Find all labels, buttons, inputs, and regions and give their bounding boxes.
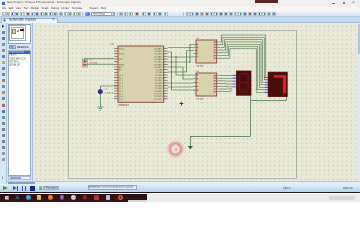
svg-text:P0.2/AD2: P0.2/AD2 [155,53,163,56]
svg-text:P2.2/A10: P2.2/A10 [155,74,163,77]
svg-text:AT89C51: AT89C51 [118,103,129,107]
svg-text:P3.1: P3.1 [119,99,123,101]
svg-text:U1: U1 [111,42,115,46]
svg-text:P0.4/AD4: P0.4/AD4 [155,58,163,61]
svg-text:XTAL1: XTAL1 [119,47,125,50]
svg-text:P3.1/TXD: P3.1/TXD [154,93,163,95]
svg-text:74LS47: 74LS47 [196,99,204,101]
svg-text:P2.6/A14: P2.6/A14 [155,85,163,88]
svg-text:P2.0/A8: P2.0/A8 [156,69,163,72]
svg-text:P2.4/A12: P2.4/A12 [155,79,163,82]
svg-text:P3.0: P3.0 [119,96,123,98]
svg-text:P0.7/AD7: P0.7/AD7 [155,66,163,69]
svg-text:LED-BLUE: LED-BLUE [105,93,115,95]
svg-text:P0.0/AD0: P0.0/AD0 [155,47,163,50]
svg-text:P1.7: P1.7 [119,93,123,95]
svg-text:P0.1/AD1: P0.1/AD1 [155,50,163,53]
svg-text:C3: C3 [105,89,107,91]
svg-text:P0.3/AD3: P0.3/AD3 [155,55,163,58]
svg-text:P2.1/A9: P2.1/A9 [156,71,163,74]
svg-text:P3.3/INT1: P3.3/INT1 [154,99,163,101]
svg-text:P2.5/A13: P2.5/A13 [155,82,163,85]
svg-text:P2.3/A11: P2.3/A11 [155,77,163,80]
svg-text:P2.7/A15: P2.7/A15 [155,87,163,90]
svg-text:X1: X1 [90,60,93,62]
svg-text:P0.6/AD6: P0.6/AD6 [155,63,163,66]
svg-text:P3.2/INT0: P3.2/INT0 [154,96,163,98]
svg-text:P1.4: P1.4 [119,86,123,88]
svg-text:PSEN: PSEN [119,64,125,66]
svg-text:P1.3: P1.3 [119,83,123,85]
svg-text:74LS47: 74LS47 [196,66,204,68]
svg-text:XTAL2: XTAL2 [119,53,125,56]
svg-text:P0.5/AD5: P0.5/AD5 [155,61,163,64]
svg-text:P1.1: P1.1 [119,78,123,80]
